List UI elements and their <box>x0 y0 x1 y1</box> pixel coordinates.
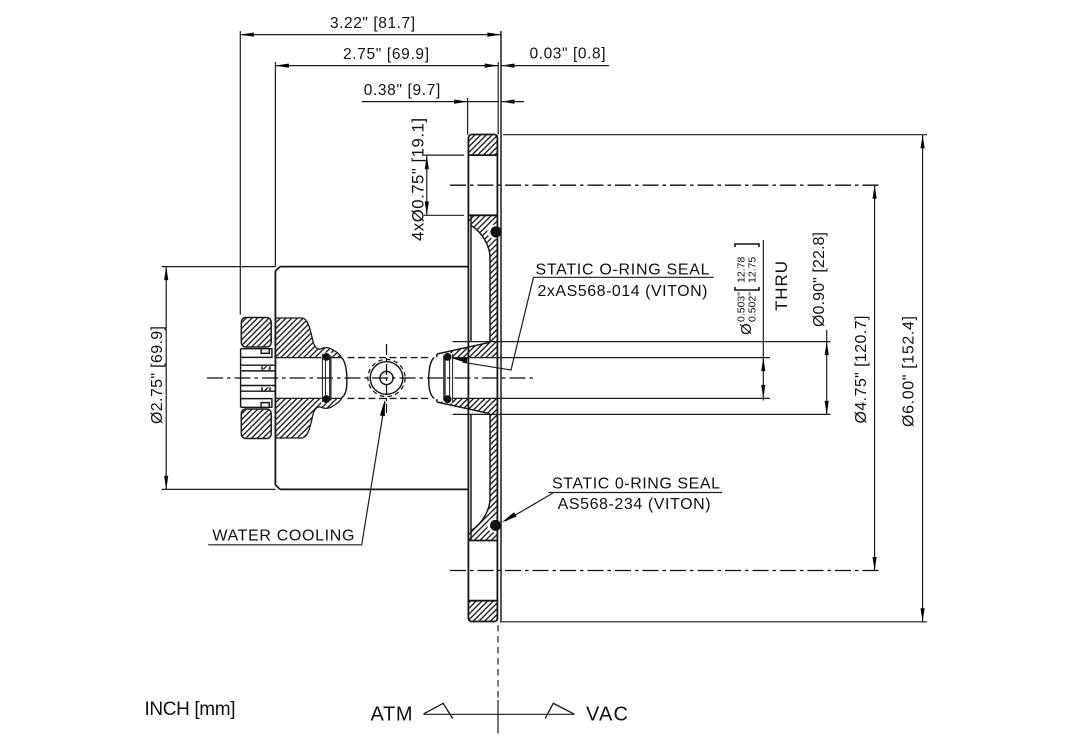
svg-text:Ø6.00" [152.4]: Ø6.00" [152.4] <box>900 316 917 427</box>
svg-text:STATIC 0-RING SEAL: STATIC 0-RING SEAL <box>552 476 720 493</box>
svg-text:Ø2.75" [69.9]: Ø2.75" [69.9] <box>149 326 166 424</box>
svg-text:THRU: THRU <box>772 261 791 311</box>
svg-text:Ø0.90" [22.8]: Ø0.90" [22.8] <box>811 232 828 327</box>
svg-text:AS568-234 (VITON): AS568-234 (VITON) <box>558 496 711 513</box>
svg-text:2.75" [69.9]: 2.75" [69.9] <box>343 46 429 63</box>
svg-text:INCH [mm]: INCH [mm] <box>145 699 236 720</box>
svg-text:3.22" [81.7]: 3.22" [81.7] <box>330 15 415 32</box>
svg-text:2xAS568-014 (VITON): 2xAS568-014 (VITON) <box>538 283 708 300</box>
svg-text:STATIC O-RING SEAL: STATIC O-RING SEAL <box>536 262 710 279</box>
svg-text:VAC: VAC <box>586 704 628 726</box>
svg-text:0.38" [9.7]: 0.38" [9.7] <box>364 82 441 99</box>
svg-text:12.75: 12.75 <box>747 257 759 283</box>
svg-text:ATM: ATM <box>371 704 413 726</box>
svg-text:0.502": 0.502" <box>747 292 759 322</box>
svg-text:Ø4.75" [120.7]: Ø4.75" [120.7] <box>853 316 870 424</box>
svg-text:WATER COOLING: WATER COOLING <box>212 528 354 545</box>
svg-text:Ø: Ø <box>738 323 755 335</box>
svg-text:0.03" [0.8]: 0.03" [0.8] <box>530 46 606 63</box>
svg-text:4xØ0.75" [19.1]: 4xØ0.75" [19.1] <box>409 118 428 241</box>
